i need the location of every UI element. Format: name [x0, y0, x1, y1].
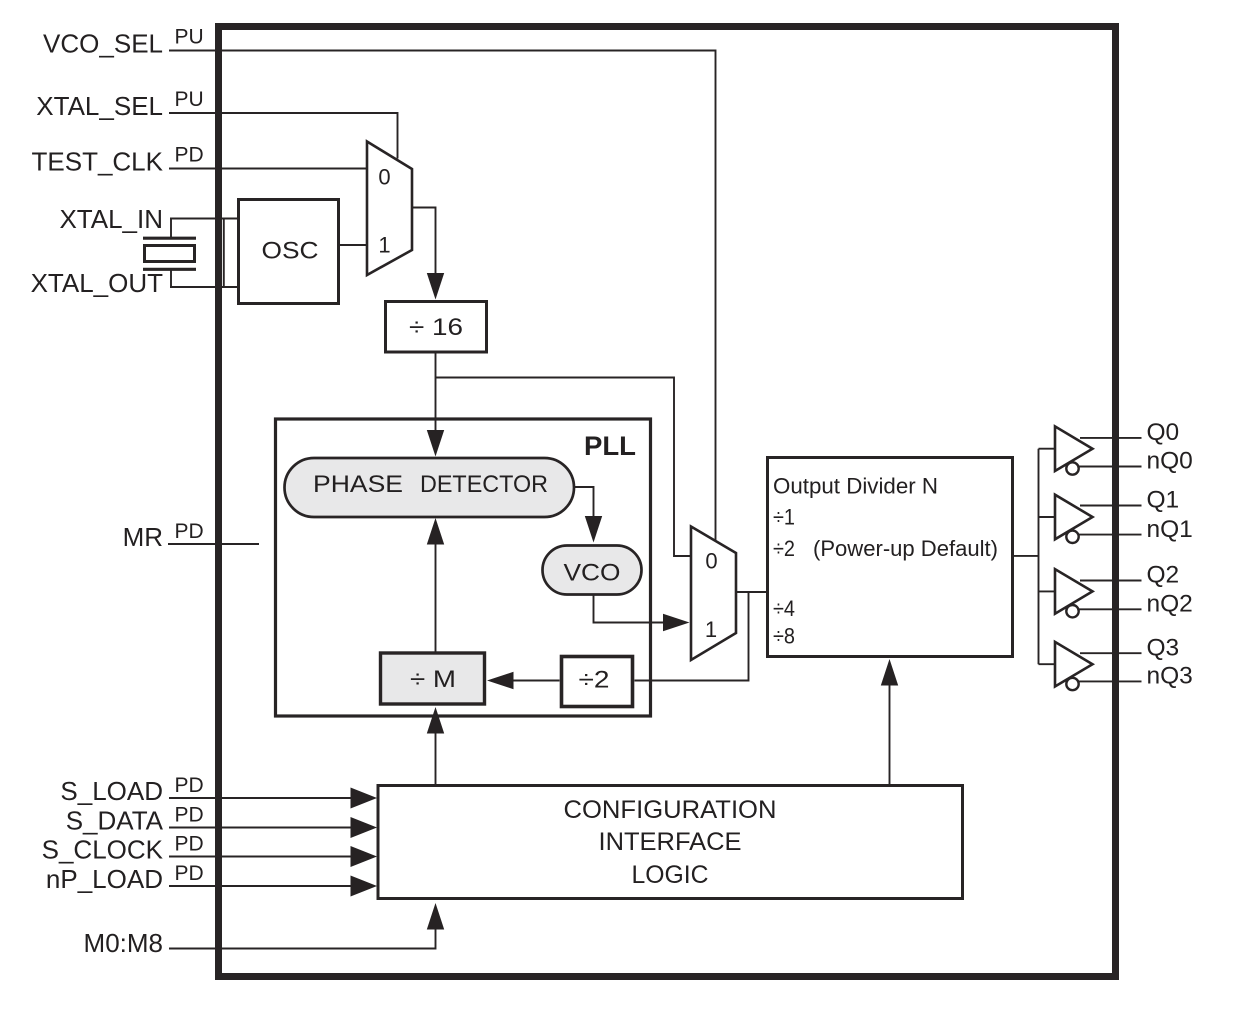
wire divide-by-M to phase detector: [435, 544, 437, 652]
wire MR stub: [168, 543, 259, 545]
wire buffer input bus: [1038, 449, 1040, 665]
wire stub crystal to XTAL_OUT: [170, 270, 172, 287]
pin attribute PU: [175, 88, 204, 111]
svg-text:Q3: Q3: [1147, 634, 1180, 661]
svg-text:Q1: Q1: [1147, 487, 1180, 514]
svg-text:XTAL_SEL: XTAL_SEL: [36, 91, 163, 121]
svg-text:÷1: ÷1: [773, 505, 795, 530]
oscillator OSC: [239, 200, 339, 304]
svg-text:LOGIC: LOGIC: [632, 861, 709, 889]
svg-text:INTERFACE: INTERFACE: [599, 828, 742, 856]
wire VCO_SEL to mux M2 select: [169, 51, 716, 542]
wire stub XTAL_IN to crystal: [170, 219, 172, 238]
mux M2: [691, 527, 736, 661]
output label nQ0: [1147, 448, 1193, 475]
pin attribute PD: [175, 862, 204, 885]
svg-text:XTAL_OUT: XTAL_OUT: [31, 268, 164, 298]
svg-text:nQ2: nQ2: [1147, 591, 1193, 618]
chip outline border: [219, 27, 1116, 977]
input label VCO_SEL: [43, 29, 163, 59]
svg-text:Q2: Q2: [1147, 562, 1180, 589]
svg-text:PD: PD: [175, 520, 204, 543]
svg-text:CONFIGURATION: CONFIGURATION: [564, 796, 777, 824]
buffer U1: [1039, 495, 1093, 543]
svg-text:1: 1: [705, 617, 717, 642]
input label S_LOAD: [60, 776, 163, 806]
input label MR: [123, 522, 163, 552]
svg-text:VCO: VCO: [564, 560, 621, 587]
output divider N block: [768, 458, 1013, 657]
svg-text:÷2: ÷2: [579, 667, 610, 694]
arrowhead nP_LOAD: [351, 876, 378, 897]
wire XTAL_SEL to mux M1 select: [169, 113, 398, 159]
wire M0:M8 to configuration logic: [169, 929, 436, 949]
svg-text:÷8: ÷8: [773, 624, 795, 649]
wire output Q0: [1080, 437, 1142, 439]
output label Q2: [1147, 562, 1180, 589]
wire branch reference to mux M2 input 0: [436, 378, 692, 557]
arrowhead S_DATA: [351, 817, 378, 838]
svg-text:0: 0: [705, 549, 717, 574]
wire output nQ0: [1079, 466, 1142, 468]
divider /M: [381, 653, 485, 704]
divider /2: [562, 657, 633, 707]
svg-text:PD: PD: [175, 833, 204, 856]
wire output Q3: [1080, 652, 1142, 654]
arrowhead into mux M2 input 1: [663, 614, 690, 631]
svg-text:÷4: ÷4: [773, 596, 795, 621]
output label Q1: [1147, 487, 1180, 514]
arrowhead into divide-by-16: [427, 273, 444, 300]
wire VCO to mux M2 input 1: [594, 595, 665, 623]
svg-text:PU: PU: [175, 26, 204, 49]
wire configuration logic to divide-by-M: [435, 733, 437, 785]
oscillator VCO: [543, 546, 642, 595]
svg-text:VCO_SEL: VCO_SEL: [43, 29, 163, 59]
wire TEST_CLK to mux M1 input 0: [169, 168, 367, 170]
wire output nQ2: [1079, 608, 1142, 610]
divider /16: [386, 302, 487, 353]
input label S_CLOCK: [42, 835, 164, 865]
input label nP_LOAD: [46, 864, 163, 894]
wire divide-by-16 to phase detector: [435, 352, 437, 431]
svg-text:nQ0: nQ0: [1147, 448, 1193, 475]
output label nQ3: [1147, 663, 1193, 690]
arrowhead into divide-by-M bottom: [427, 707, 444, 734]
pin attribute PD: [175, 520, 204, 543]
buffer U0: [1039, 426, 1093, 474]
svg-text:÷ M: ÷ M: [410, 666, 456, 693]
buffer U3: [1039, 642, 1093, 690]
pin attribute PD: [175, 804, 204, 827]
wire XTAL_IN to OSC: [170, 218, 237, 220]
svg-text:÷ 16: ÷ 16: [409, 314, 463, 341]
svg-text:DETECTOR: DETECTOR: [420, 471, 548, 498]
input label XTAL_IN: [59, 204, 163, 234]
svg-text:PU: PU: [175, 88, 204, 111]
arrowhead into divide-by-M: [487, 672, 514, 689]
wire output nQ3: [1079, 680, 1142, 682]
svg-text:M0:M8: M0:M8: [84, 928, 163, 958]
output label nQ1: [1147, 516, 1193, 543]
wire output nQ1: [1079, 534, 1142, 536]
svg-text:Q0: Q0: [1147, 419, 1180, 446]
pin attribute PD: [175, 144, 204, 167]
svg-text:S_CLOCK: S_CLOCK: [42, 835, 164, 865]
input label XTAL_SEL: [36, 91, 163, 121]
output label nQ2: [1147, 591, 1193, 618]
output label Q0: [1147, 419, 1180, 446]
wire divide-by-2 to divide-by-M: [513, 680, 560, 682]
svg-text:TEST_CLK: TEST_CLK: [32, 147, 164, 177]
svg-text:S_LOAD: S_LOAD: [60, 776, 163, 806]
svg-text:MR: MR: [123, 522, 163, 552]
wire S_CLOCK to configuration logic: [169, 856, 352, 858]
svg-text:PD: PD: [175, 144, 204, 167]
wire nP_LOAD to configuration logic: [169, 885, 352, 887]
svg-text:(Power-up Default): (Power-up Default): [813, 536, 998, 561]
wire mux M1 output to divide-by-16: [412, 208, 436, 275]
crystal X1: [143, 238, 196, 269]
wire feedback branch to divide-by-2: [635, 592, 749, 681]
svg-text:0: 0: [378, 165, 390, 190]
svg-text:PLL: PLL: [584, 431, 636, 461]
wire mux M2 output to output divider: [736, 591, 766, 593]
mux M1: [367, 142, 412, 276]
svg-text:1: 1: [378, 233, 390, 258]
svg-text:XTAL_IN: XTAL_IN: [59, 204, 163, 234]
wire XTAL_OUT to OSC: [170, 286, 237, 288]
svg-text:S_DATA: S_DATA: [66, 806, 164, 836]
svg-text:PHASE: PHASE: [313, 471, 403, 498]
wire phase detector to VCO: [574, 487, 594, 517]
svg-text:÷2: ÷2: [773, 536, 795, 561]
arrowhead M0:M8: [427, 903, 444, 930]
wire S_LOAD to configuration logic: [169, 797, 352, 799]
output label Q3: [1147, 634, 1180, 661]
svg-text:nP_LOAD: nP_LOAD: [46, 864, 163, 894]
PLL block: [276, 419, 651, 716]
arrowhead into phase detector: [427, 430, 444, 457]
svg-text:PD: PD: [175, 774, 204, 797]
wire output Q2: [1080, 580, 1142, 582]
input label M0:M8: [84, 928, 163, 958]
pin attribute PD: [175, 774, 204, 797]
configuration interface logic block: [378, 786, 963, 899]
wire OSC to mux M1 input 1: [340, 244, 367, 246]
arrowhead into phase detector bottom: [427, 518, 444, 545]
wire vertical stub at border: [223, 219, 225, 288]
arrowhead S_CLOCK: [351, 846, 378, 867]
wire configuration logic to output divider: [889, 685, 891, 785]
arrowhead S_LOAD: [351, 788, 378, 809]
svg-text:nQ3: nQ3: [1147, 663, 1193, 690]
svg-text:PD: PD: [175, 804, 204, 827]
input label TEST_CLK: [32, 147, 164, 177]
wire output Q1: [1080, 505, 1142, 507]
svg-text:Output Divider N: Output Divider N: [773, 474, 938, 499]
pin attribute PU: [175, 26, 204, 49]
svg-text:nQ1: nQ1: [1147, 516, 1193, 543]
pin attribute PD: [175, 833, 204, 856]
svg-text:PD: PD: [175, 862, 204, 885]
phase detector: [285, 458, 575, 517]
wire output divider to buffer bus: [1012, 555, 1039, 557]
svg-text:OSC: OSC: [262, 238, 319, 265]
wire S_DATA to configuration logic: [169, 827, 352, 829]
input label XTAL_OUT: [31, 268, 164, 298]
arrowhead into VCO: [585, 516, 602, 543]
buffer U2: [1039, 569, 1093, 617]
arrowhead into output divider bottom: [881, 659, 898, 686]
input label S_DATA: [66, 806, 164, 836]
